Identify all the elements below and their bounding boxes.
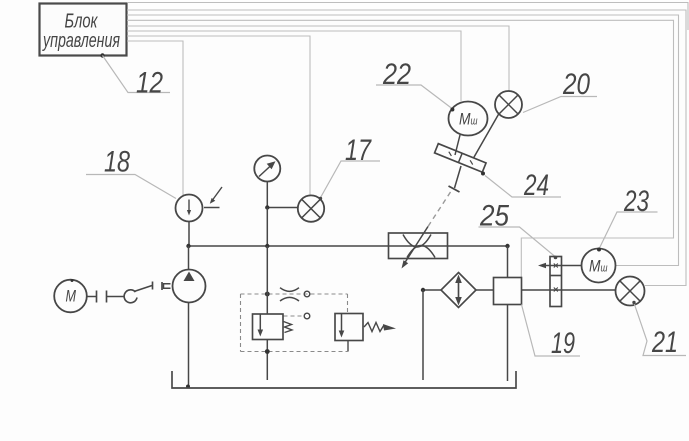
line main drop through relief valve — [266, 246, 268, 314]
label 17 — [319, 134, 380, 200]
svg-text:17: 17 — [345, 134, 372, 167]
pilot throttle — [280, 288, 299, 301]
unit 19 — [494, 278, 522, 305]
svg-text:М: М — [459, 111, 471, 129]
pressure gauge — [254, 156, 280, 182]
pilot dashed enclosure — [241, 294, 348, 352]
label 20 — [523, 68, 597, 113]
electric motor M — [54, 279, 87, 312]
motor 22 (Мш) — [449, 102, 488, 136]
pilot dashed line to relief valve — [284, 315, 304, 317]
svg-text:М: М — [589, 258, 601, 276]
label 12 — [103, 56, 171, 100]
leader dot on valve 24 — [481, 172, 485, 176]
svg-text:ш: ш — [471, 116, 478, 128]
coupling 25 — [550, 256, 562, 307]
wire bus line 1 (top) — [127, 3, 688, 31]
junction on dashed top — [265, 292, 270, 297]
junction gauge branch — [265, 205, 269, 209]
lamp 17 — [298, 195, 324, 221]
motor 23 (Мш) — [582, 248, 616, 283]
wire to lamp 17 — [127, 36, 310, 196]
svg-text:23: 23 — [623, 185, 649, 218]
pump — [173, 270, 206, 303]
lamp 20 — [495, 91, 522, 118]
dot at tank — [186, 385, 190, 389]
drain filter branch to tank — [422, 290, 424, 380]
label 21 — [632, 301, 686, 359]
svg-text:ш: ш — [601, 263, 608, 275]
pump fork — [164, 284, 171, 288]
sensor 18 — [176, 187, 223, 222]
pilot relief valve (right) — [335, 314, 396, 341]
svg-text:М: М — [66, 287, 77, 306]
clutch output bars — [153, 282, 163, 291]
filter — [441, 273, 476, 308]
junction gauge drop — [265, 244, 269, 248]
wire gauge branch to main line — [266, 208, 268, 247]
wire sensor 18 to main line — [188, 222, 190, 247]
junction on dashed bottom — [265, 349, 270, 354]
pilot port lower — [304, 313, 310, 319]
riser main line to unit 19 — [507, 246, 509, 278]
wire to motor 23 — [127, 15, 679, 266]
clutch — [124, 286, 152, 303]
svg-text:22: 22 — [382, 58, 411, 91]
shaft below valve 24 — [455, 166, 462, 188]
label 23 — [599, 185, 658, 249]
gauge stem — [266, 182, 268, 208]
label 18 — [86, 146, 176, 199]
shaft motor 22 to valve 24 — [455, 135, 460, 155]
svg-text:12: 12 — [136, 67, 163, 100]
main pressure line — [189, 245, 508, 247]
shaft with arrow through coupling 25 — [538, 263, 582, 268]
svg-text:25: 25 — [479, 200, 509, 233]
line filter to unit 19 — [476, 289, 494, 291]
T end bar — [449, 186, 460, 192]
label 19 — [522, 305, 581, 361]
wire to sensor 18 — [127, 41, 183, 195]
svg-text:18: 18 — [104, 146, 130, 179]
shaft to clutch — [107, 296, 125, 298]
junction above pump — [186, 244, 190, 248]
flow control valve — [389, 227, 448, 269]
lamp 21 — [616, 277, 645, 306]
branch wire gauge to lamp 17 — [267, 207, 298, 209]
valve 24 assembly — [435, 114, 499, 193]
pump drain to tank — [188, 303, 190, 387]
junction at filter branch — [421, 288, 425, 292]
tank — [172, 371, 516, 388]
junction at unit 19 riser — [505, 244, 509, 248]
pilot relief drain — [347, 341, 349, 352]
label 24 — [485, 169, 561, 202]
relief valve (left) — [253, 314, 293, 340]
control unit block 12 (Блок управления) — [40, 4, 127, 58]
wire to lamp 21 — [127, 10, 686, 286]
label 22 — [376, 58, 452, 109]
drain unit 19 to tank — [507, 305, 509, 382]
svg-text:21: 21 — [651, 326, 678, 359]
motor shaft — [87, 296, 96, 298]
svg-text:24: 24 — [523, 169, 549, 202]
wire to motor 22 — [127, 31, 461, 101]
line junction to filter — [423, 289, 441, 291]
svg-text:управления: управления — [42, 30, 121, 52]
svg-text:19: 19 — [551, 327, 575, 360]
valve 24 body (rotated two-cell valve) — [435, 144, 486, 173]
label 25 — [479, 200, 556, 257]
wire to lamp 20 — [127, 26, 509, 92]
svg-text:20: 20 — [562, 68, 590, 101]
line unit 19 to lamp 21 through coupling — [522, 289, 616, 291]
pilot port upper — [304, 291, 310, 297]
link lamp 20 to valve 24 — [474, 114, 500, 159]
relief valve drain — [266, 340, 268, 381]
wire to unit 19 — [127, 20, 674, 277]
coupling bars — [97, 291, 107, 303]
pump outlet riser — [188, 246, 190, 270]
mechanical dashed link valve 24 to flow valve — [428, 192, 451, 227]
